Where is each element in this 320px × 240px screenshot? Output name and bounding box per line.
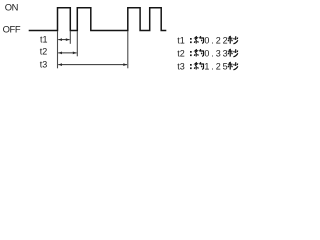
svg-text:ON: ON — [5, 1, 18, 12]
svg-text:t1: t1 — [177, 35, 185, 45]
wire waveform — [29, 8, 167, 31]
svg-text:t2: t2 — [177, 48, 185, 58]
svg-text:1.25: 1.25 — [204, 61, 229, 71]
svg-text:OFF: OFF — [3, 24, 21, 35]
svg-text:t2: t2 — [40, 47, 48, 57]
svg-text:t3: t3 — [177, 61, 185, 71]
svg-text:t1: t1 — [40, 34, 48, 44]
svg-text:0.33: 0.33 — [204, 48, 229, 58]
wire extension line A (first rise) — [57, 31, 59, 68]
svg-text:0.22: 0.22 — [204, 35, 229, 45]
wire t3 dimension line — [58, 64, 127, 66]
wire t1 dimension line — [58, 39, 69, 41]
wire extension line B (first fall) — [69, 31, 71, 44]
wire t2 dimension line — [58, 52, 76, 54]
wire extension line C (second rise) — [76, 31, 78, 56]
wire extension line D (third rise) — [127, 31, 129, 68]
svg-text:t3: t3 — [40, 59, 48, 69]
